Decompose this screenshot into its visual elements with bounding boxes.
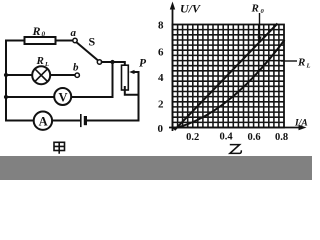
wire right vertical bbox=[138, 72, 140, 121]
svg-text:L: L bbox=[44, 61, 49, 68]
grid fine lines bbox=[173, 25, 285, 128]
line R0 (straight) bbox=[175, 24, 278, 131]
svg-text:0: 0 bbox=[158, 123, 164, 135]
resistor R0 bbox=[25, 37, 56, 44]
y tick labels bbox=[158, 20, 165, 136]
rheostat bottom lead bbox=[125, 87, 139, 95]
svg-text:S: S bbox=[89, 35, 96, 49]
rheostat wiper arrow bbox=[133, 71, 139, 73]
svg-text:P: P bbox=[139, 58, 147, 70]
wire left vertical bbox=[5, 41, 7, 121]
wire voltmeter branch vertical bbox=[112, 62, 114, 97]
callout R0 arrow bbox=[259, 13, 261, 38]
curve RL (lamp) bbox=[173, 40, 285, 129]
node dot lamp row bbox=[4, 73, 8, 77]
label 乙 (drawn strokes) bbox=[230, 145, 242, 154]
voltmeter V bbox=[54, 88, 71, 105]
svg-text:R: R bbox=[32, 24, 41, 38]
wire pivot to rheostat top bbox=[102, 62, 125, 68]
wire bottom row bbox=[6, 120, 139, 122]
label 甲 (drawn strokes) bbox=[54, 142, 65, 154]
rheostat P box bbox=[122, 65, 129, 90]
svg-text:0: 0 bbox=[42, 31, 46, 39]
svg-text:I/A: I/A bbox=[294, 119, 308, 129]
terminal a bbox=[73, 38, 77, 42]
svg-text:0.6: 0.6 bbox=[247, 132, 260, 143]
battery long plate bbox=[80, 115, 82, 127]
axis U (y) bbox=[172, 6, 174, 131]
grid border bbox=[173, 25, 285, 128]
svg-text:2: 2 bbox=[158, 99, 164, 111]
lamp RL bbox=[32, 66, 50, 84]
svg-text:a: a bbox=[71, 27, 77, 39]
svg-text:8: 8 bbox=[158, 20, 164, 32]
svg-text:b: b bbox=[73, 62, 79, 74]
wire top row bbox=[6, 40, 73, 42]
x tick labels bbox=[186, 132, 288, 144]
node junction dot bbox=[110, 60, 114, 64]
switch S blade bbox=[77, 42, 98, 60]
axis I (x) bbox=[169, 127, 303, 129]
terminal b bbox=[75, 73, 79, 77]
svg-text:0.2: 0.2 bbox=[186, 132, 199, 143]
svg-text:V: V bbox=[58, 90, 67, 104]
svg-text:R: R bbox=[251, 3, 259, 15]
svg-text:A: A bbox=[39, 115, 48, 129]
svg-text:4: 4 bbox=[158, 72, 164, 84]
switch pivot bbox=[97, 60, 101, 64]
callout RL line bbox=[281, 60, 297, 62]
wire lamp row bbox=[6, 74, 75, 76]
svg-text:U/V: U/V bbox=[180, 2, 201, 16]
svg-text:R: R bbox=[36, 55, 44, 67]
svg-text:0.8: 0.8 bbox=[275, 132, 288, 143]
ammeter A bbox=[34, 112, 52, 130]
node dot voltmeter row bbox=[4, 95, 8, 99]
background paper bbox=[0, 0, 312, 180]
svg-text:L: L bbox=[306, 63, 311, 70]
svg-text:0.4: 0.4 bbox=[219, 132, 233, 143]
svg-text:6: 6 bbox=[158, 47, 164, 59]
battery short plate bbox=[84, 118, 87, 124]
wire voltmeter row bbox=[6, 96, 113, 98]
wiper arrowhead bbox=[129, 70, 134, 74]
svg-text:R: R bbox=[297, 57, 305, 69]
gray bar bbox=[0, 156, 312, 180]
